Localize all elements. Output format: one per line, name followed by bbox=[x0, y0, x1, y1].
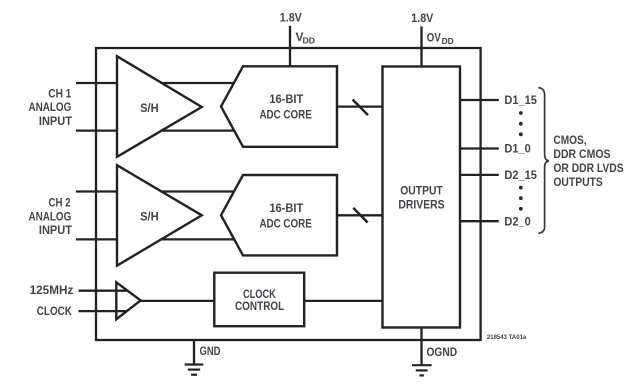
ellipsis dots between D1_15 and D1_0 bbox=[519, 111, 523, 136]
wire output D1_0 bbox=[460, 147, 499, 149]
svg-text:OUTPUTS: OUTPUTS bbox=[553, 175, 602, 189]
svg-text:INPUT: INPUT bbox=[39, 223, 73, 237]
wire CLOCK input bbox=[79, 310, 128, 312]
svg-text:S/H: S/H bbox=[140, 210, 159, 224]
svg-text:DRIVERS: DRIVERS bbox=[398, 197, 444, 211]
16-bit ADC core 2 (pentagon) bbox=[221, 175, 337, 255]
svg-text:D1_15: D1_15 bbox=[504, 93, 537, 107]
wire CLOCK inside buffer bbox=[115, 310, 127, 312]
svg-text:DD: DD bbox=[442, 36, 454, 46]
S/H amplifier 1 (triangle) bbox=[117, 56, 202, 157]
wire CH2 input negative bbox=[76, 238, 243, 240]
svg-text:GND: GND bbox=[200, 344, 221, 358]
svg-text:OUTPUT: OUTPUT bbox=[400, 183, 443, 197]
svg-text:16-BIT: 16-BIT bbox=[269, 92, 304, 106]
wire clock buffer to clock control bbox=[141, 300, 215, 302]
svg-text:ANALOG: ANALOG bbox=[29, 209, 72, 223]
svg-text:16-BIT: 16-BIT bbox=[269, 201, 304, 215]
ellipsis dots between D2_15 and D2_0 bbox=[519, 186, 523, 211]
svg-text:OR DDR LVDS: OR DDR LVDS bbox=[553, 161, 623, 175]
svg-text:125MHz: 125MHz bbox=[30, 283, 74, 297]
svg-text:1.8V: 1.8V bbox=[411, 11, 433, 25]
outer chip boundary box bbox=[96, 48, 481, 340]
wire GND stem bbox=[193, 340, 195, 365]
svg-text:CH 1: CH 1 bbox=[48, 86, 71, 100]
wire 125MHz inside buffer bbox=[115, 290, 128, 292]
svg-text:D2_15: D2_15 bbox=[504, 168, 537, 182]
svg-text:D1_0: D1_0 bbox=[504, 142, 531, 156]
output drivers block bbox=[383, 67, 461, 328]
svg-text:DDR CMOS: DDR CMOS bbox=[553, 147, 610, 161]
clock control block bbox=[214, 273, 304, 327]
wire clock control to output drivers bbox=[304, 300, 383, 302]
wire CH2 input positive bbox=[76, 190, 243, 192]
wire CH1 input negative bbox=[76, 129, 243, 131]
svg-text:INPUT: INPUT bbox=[39, 114, 73, 128]
wire output D2_0 bbox=[460, 220, 499, 222]
svg-text:OV: OV bbox=[427, 31, 441, 45]
wire bus ADC2 to output drivers bbox=[337, 214, 383, 216]
wire OGND stem bbox=[420, 328, 422, 366]
ground symbol GND bbox=[185, 365, 204, 375]
wire output D1_15 bbox=[460, 99, 499, 101]
brace grouping outputs bbox=[538, 88, 549, 234]
16-bit ADC core 1 (pentagon) bbox=[221, 66, 337, 147]
svg-text:D2_0: D2_0 bbox=[504, 214, 531, 228]
wire output D2_15 bbox=[460, 174, 499, 176]
svg-text:ADC CORE: ADC CORE bbox=[259, 216, 311, 230]
wire CH1 input positive bbox=[76, 82, 243, 84]
svg-text:S/H: S/H bbox=[140, 101, 159, 115]
S/H amplifier 2 (triangle) bbox=[117, 165, 202, 265]
wire bus ADC1 to output drivers bbox=[337, 105, 383, 107]
bus slash 2 bbox=[353, 208, 367, 223]
svg-text:DD: DD bbox=[303, 36, 316, 46]
wire VDD supply bbox=[289, 26, 291, 68]
wire OVDD supply bbox=[420, 26, 422, 67]
svg-text:CONTROL: CONTROL bbox=[235, 299, 284, 313]
ground symbol OGND bbox=[412, 365, 432, 375]
svg-text:CLOCK: CLOCK bbox=[37, 304, 72, 318]
svg-text:218543 TA01a: 218543 TA01a bbox=[487, 334, 527, 341]
svg-text:CH 2: CH 2 bbox=[49, 196, 71, 210]
bus slash 1 bbox=[353, 100, 368, 116]
svg-text:OGND: OGND bbox=[427, 345, 458, 359]
svg-text:CMOS,: CMOS, bbox=[553, 133, 586, 147]
svg-text:ANALOG: ANALOG bbox=[29, 100, 72, 114]
svg-text:ADC CORE: ADC CORE bbox=[259, 108, 311, 122]
wire 125MHz input bbox=[79, 290, 129, 292]
clock input buffer (triangle) bbox=[116, 282, 140, 319]
svg-text:1.8V: 1.8V bbox=[280, 10, 302, 24]
